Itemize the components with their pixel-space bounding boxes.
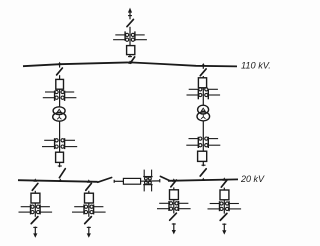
disconnector T1b (20 kV bus side) xyxy=(59,169,65,178)
current transformers F4 (left) xyxy=(208,201,224,211)
node: line bay tap on 110 kV bus xyxy=(128,60,132,63)
outgoing feeder arrow F4 xyxy=(222,223,226,234)
wire: T1 LV breaker to disconnector xyxy=(59,162,61,167)
20 kV busbar (right section) xyxy=(168,179,238,180)
wire: T1 LV lead xyxy=(59,121,61,152)
wire: T2 LV breaker to disconnector xyxy=(202,161,204,166)
wire: F3 breaker to CTs xyxy=(173,200,175,214)
current transformers (bus tie, lower) xyxy=(143,181,152,191)
current transformers T2 LV (right) xyxy=(205,137,221,148)
circuit breaker T1 LV xyxy=(56,152,64,162)
wire: T2 breaker to CTs xyxy=(202,88,204,106)
incoming line arrow (110 kV line) xyxy=(128,8,132,20)
node: T1 bay tap on 110 kV bus xyxy=(58,62,62,68)
node: feeder F2 tap on 20 kV bus xyxy=(87,179,91,182)
outgoing feeder arrow F2 xyxy=(87,227,91,238)
current transformers F2 (left) xyxy=(72,204,88,214)
disconnector: bus-tie left blade xyxy=(98,178,114,183)
disconnector F4a (bus side) xyxy=(221,180,227,187)
disconnector F2b (cable side) xyxy=(85,217,92,224)
transformer T1 xyxy=(53,107,66,121)
wire: T1 breaker to CTs xyxy=(59,89,61,107)
disconnector Q11 (line side) xyxy=(127,19,133,26)
disconnector F4b (cable side) xyxy=(220,213,227,220)
instrument transformers (line bay) (right) xyxy=(131,31,147,41)
node: T1 tap on 20 kV bus xyxy=(58,179,62,182)
node: T2 tap on 20 kV bus xyxy=(201,178,205,181)
110 kV busbar xyxy=(23,62,237,66)
node: T2 bay tap on 110 kV bus xyxy=(201,63,205,69)
disconnector F1b (cable side) xyxy=(31,217,38,224)
disconnector F3a (bus side) xyxy=(171,180,177,187)
disconnector T2b (20 kV bus side) xyxy=(200,169,206,176)
wire: T2a to breaker xyxy=(202,76,204,78)
circuit breaker F3 xyxy=(170,190,179,200)
current transformers T2 HV (left) xyxy=(187,88,202,100)
disconnector Q12 (bus side) xyxy=(130,57,135,63)
current transformers F1 (left) xyxy=(19,204,35,214)
wire: F4 breaker to CTs xyxy=(223,200,225,214)
current transformers F3 (left) xyxy=(157,201,173,211)
wire: tie disconnector to tie breaker xyxy=(114,180,123,182)
current transformers F1 (right) xyxy=(37,204,53,214)
disconnector F1a (bus side) xyxy=(32,183,38,190)
outgoing feeder arrow F1 xyxy=(33,227,37,238)
disconnector: bus-tie right blade xyxy=(160,176,170,182)
wire: F4 blade to breaker xyxy=(223,188,225,191)
20 kV busbar (left section) xyxy=(18,180,98,182)
wire: F2 breaker to CTs xyxy=(88,203,90,217)
current transformers T1 HV (left) xyxy=(43,90,58,101)
wire: Q11 to CTs xyxy=(129,27,131,46)
current transformers T1 HV (right) xyxy=(61,90,76,101)
current transformers F3 (right) xyxy=(175,201,191,211)
wire: F3 blade to breaker xyxy=(173,187,175,190)
circuit breaker F2 xyxy=(85,193,94,203)
svg-text:20 kV: 20 kV xyxy=(240,174,265,184)
wire: Q10 to disconnector xyxy=(129,55,131,58)
current transformers (bus tie, upper) xyxy=(143,170,152,180)
wire: T1a to breaker xyxy=(59,75,61,79)
transformer T2 xyxy=(197,105,210,121)
wire: F2 blade to breaker xyxy=(88,191,90,194)
svg-text:110 kV.: 110 kV. xyxy=(241,61,271,71)
circuit breaker F4 xyxy=(220,190,229,200)
current transformers T2 LV (left) xyxy=(186,137,202,148)
node: feeder F4 tap on 20 kV bus xyxy=(222,177,226,180)
wire: F1 breaker to CTs xyxy=(34,203,36,217)
circuit breaker Q10 (line bay) xyxy=(127,46,135,55)
bus-tie circuit breaker xyxy=(123,178,140,184)
wire: F1 blade to breaker xyxy=(34,191,36,194)
current transformers T2 HV (right) xyxy=(205,88,220,100)
node: feeder F1 tap on 20 kV bus xyxy=(33,178,37,181)
current transformers F4 (right) xyxy=(226,201,242,211)
node: feeder F3 tap on 20 kV bus xyxy=(172,178,176,181)
disconnector T2a (bus side) xyxy=(200,69,206,76)
circuit breaker T2 LV xyxy=(198,151,207,161)
current transformers T1 LV (left) xyxy=(42,138,58,149)
circuit breaker T1 HV xyxy=(56,79,64,89)
disconnector T1a (bus side) xyxy=(57,68,63,75)
current transformers F2 (right) xyxy=(90,204,106,214)
current transformers T1 LV (right) xyxy=(61,138,77,149)
instrument transformers (line bay) (left) xyxy=(113,31,129,41)
disconnector F3b (cable side) xyxy=(170,213,177,220)
disconnector F2a (bus side) xyxy=(86,183,92,190)
wire: T2 LV lead xyxy=(202,121,204,152)
circuit breaker T2 HV xyxy=(198,78,206,88)
outgoing feeder arrow F3 xyxy=(172,223,176,234)
wire: tie breaker to tie CTs xyxy=(141,180,160,182)
circuit breaker F1 xyxy=(31,193,40,203)
